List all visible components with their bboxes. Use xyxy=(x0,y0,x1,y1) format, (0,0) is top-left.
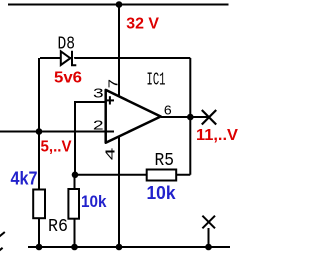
svg-text:7: 7 xyxy=(107,79,123,89)
svg-text:3: 3 xyxy=(93,86,105,102)
svg-text:R5: R5 xyxy=(155,150,175,171)
svg-text:2: 2 xyxy=(93,118,105,134)
svg-text:IC1: IC1 xyxy=(147,70,166,91)
svg-text:11,..V: 11,..V xyxy=(196,127,238,144)
svg-text:4: 4 xyxy=(104,147,120,161)
svg-text:5v6: 5v6 xyxy=(54,69,82,86)
svg-text:32 V: 32 V xyxy=(126,16,159,33)
svg-text:R6: R6 xyxy=(48,216,68,237)
svg-text:5,..V: 5,..V xyxy=(41,139,72,156)
svg-text:6: 6 xyxy=(164,104,173,120)
svg-text:10k: 10k xyxy=(147,183,177,203)
svg-text:10k: 10k xyxy=(81,192,107,211)
svg-text:4k7: 4k7 xyxy=(11,169,38,189)
svg-text:D8: D8 xyxy=(58,34,76,55)
